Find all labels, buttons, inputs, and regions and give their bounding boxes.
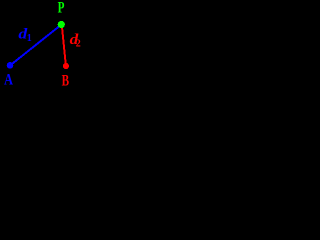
label d1 <box>18 25 31 44</box>
label d2 <box>70 32 81 50</box>
svg-text:1: 1 <box>27 33 32 44</box>
label P <box>58 0 65 16</box>
label A <box>4 71 14 89</box>
wire segment d2 (P to B) <box>62 25 66 66</box>
wire segment d1 (A to P) <box>10 25 62 66</box>
svg-text:2: 2 <box>76 39 81 50</box>
node P dot <box>58 21 65 28</box>
label B <box>62 72 69 89</box>
svg-text:P: P <box>58 0 65 16</box>
node B dot <box>63 63 69 69</box>
svg-text:A: A <box>4 71 14 89</box>
node A dot <box>7 62 14 69</box>
svg-text:B: B <box>62 72 69 89</box>
